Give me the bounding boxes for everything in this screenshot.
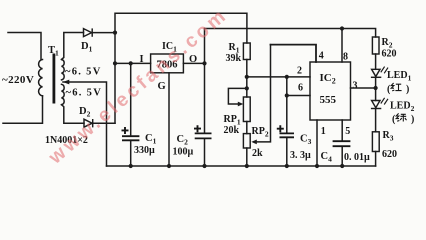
svg-text:620: 620 [382,49,397,60]
svg-text:LED1: LED1 [387,70,412,83]
svg-text:RP2: RP2 [252,126,269,139]
wire: secondary top lead to D1 [62,33,84,60]
potentiometer RP2 [243,134,250,148]
node: R1/pin2 junction [245,75,249,79]
wire: junction up and top rail to R1 [115,13,247,43]
svg-text:C2: C2 [177,134,189,147]
wire: IC1 G pin to ground [168,73,170,166]
svg-text:~220V: ~220V [2,74,34,86]
svg-text:T1: T1 [48,45,59,58]
node: pin8 rail junction [340,26,344,30]
svg-text:~6. 5V: ~6. 5V [65,67,102,78]
wire: +6V rail [205,29,376,38]
capacitor C3 [280,133,295,137]
wire: +6V riser and C2 lead [204,29,206,167]
node: LED junction [374,86,378,90]
wire: RP2 wiper riser to pin4 wire [254,45,271,142]
node: C3 branch junction [285,93,289,97]
transformer T1 secondary upper winding [62,60,65,80]
node: C2 ground [202,164,206,168]
svg-text:3: 3 [353,81,358,92]
wire: pin2 wire [247,76,310,78]
transformer T1 primary winding [39,60,43,96]
node: G ground [167,164,171,168]
node: RP2 ground [245,164,249,168]
svg-text:0. 01µ: 0. 01µ [344,152,370,163]
svg-text:1: 1 [321,126,326,137]
svg-text:R3: R3 [383,130,394,143]
wire: LED1 to LED2 [375,78,377,101]
wire: pin6 branch [287,77,310,96]
svg-text:8: 8 [343,52,348,63]
watermark www.elecfans.com [45,4,233,170]
transformer core [53,54,56,104]
node: pin2/6 branch junction [285,75,289,79]
svg-text:~6. 5V: ~6. 5V [66,88,103,99]
wire: pin8 [341,29,343,63]
label (green) [392,113,414,125]
node: input wire at junction line [113,61,117,65]
svg-text:4: 4 [319,51,324,62]
svg-text:C1: C1 [145,133,157,146]
svg-text:620: 620 [382,149,397,160]
wire: R3 to ground [375,152,377,167]
resistor R1 [243,43,250,60]
LED1 [371,69,381,77]
potentiometer RP1 [243,97,250,122]
wire: pin5 and C4 leads [341,120,343,166]
LED2 arrows [381,98,388,105]
wire: pin1 to ground [316,120,318,166]
wire: RP1 wiper tie [228,88,246,104]
wire: pin3 output [351,87,376,89]
node: C1 ground [129,164,133,168]
svg-text:20k: 20k [224,125,240,136]
wire: 220V bottom lead [3,96,43,123]
svg-text:(: ( [387,84,391,95]
wire: ground rail [107,165,376,167]
wire: R2 to LED1 [375,54,377,69]
wire: junction down to D2 wire [114,33,116,124]
wire: rectified line to IC1 input [115,62,151,64]
wire: D2 cathode to junction vertical [93,122,115,124]
wire: center tap to ground rail [63,82,107,166]
wire: secondary bottom lead to D2 [62,105,85,124]
node: C3 ground [285,164,289,168]
wire: R1 bottom lead down to RP1 [246,60,248,98]
svg-text:3. 3µ: 3. 3µ [290,150,311,161]
node: RP1 wiper junction [245,86,249,90]
svg-text:I: I [140,54,144,65]
capacitor C1 [122,136,139,140]
node: output junction [202,61,206,65]
IC2 555 box [310,62,351,120]
wire: RP2 bottom to ground [246,148,248,166]
diode D2 [84,119,93,127]
svg-text:D1: D1 [81,41,93,54]
RP1 wiper arrowhead [238,102,244,107]
svg-text:2: 2 [297,66,302,77]
wire: 220V top lead [8,33,41,60]
LED1 arrows [381,67,388,74]
resistor R3 [372,132,379,152]
node: C4 ground [340,164,344,168]
wire: C3 lead [286,96,288,167]
IC1 7806 box [151,54,184,73]
svg-text:C4: C4 [321,151,333,164]
wire: C1 leads [130,63,132,166]
svg-text:): ) [411,114,414,125]
label (red) [387,83,409,95]
diode D1 [84,28,93,36]
resistor R2 [372,37,379,54]
wire: IC1 output [183,62,204,64]
svg-text:100µ: 100µ [173,147,194,158]
svg-text:C3: C3 [300,134,312,147]
svg-text:555: 555 [320,94,337,106]
capacitor C2 [195,133,212,138]
svg-text:39k: 39k [226,53,242,64]
plus C3 [277,125,284,132]
node: C1 top junction [129,61,133,65]
LED2 [371,101,381,109]
svg-text:2k: 2k [252,148,263,159]
plus C1 [122,127,129,134]
svg-text:LED2: LED2 [390,101,415,114]
svg-text:): ) [406,84,409,95]
svg-text:IC2: IC2 [320,72,336,86]
svg-text:330µ: 330µ [134,145,155,156]
wire: RP1 to RP2 [246,122,248,134]
RP2 wiper arrowhead [251,140,256,145]
capacitor C4 [333,141,351,146]
wire: D1 cathode to junction [92,32,115,34]
plus C2 [194,125,201,132]
node: D1 junction [113,30,117,34]
node: pin1 ground [315,164,319,168]
wire: LED2 to R3 [375,109,377,132]
svg-text:(: ( [392,114,396,125]
transformer T1 secondary lower winding [62,84,65,104]
svg-text:6: 6 [298,83,303,94]
wire: pin4 wire [271,45,317,62]
svg-text:5: 5 [345,126,350,137]
